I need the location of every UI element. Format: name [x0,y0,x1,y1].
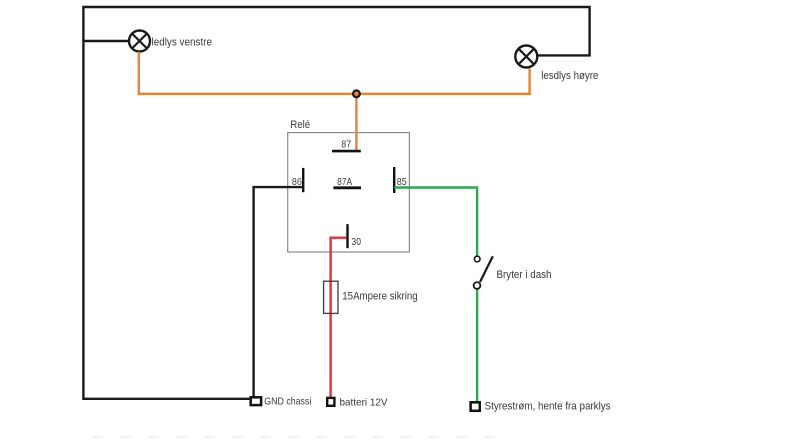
svg-text:15Ampere sikring: 15Ampere sikring [342,290,417,302]
svg-text:87A: 87A [337,176,352,188]
svg-text:30: 30 [351,236,361,248]
svg-text:lesdlys høyre: lesdlys høyre [541,70,598,82]
svg-text:Relé: Relé [290,119,310,131]
pin 85 [393,167,395,193]
terminal batteri 12V [327,398,334,406]
pin 86 [302,168,304,192]
wire green switch to terminal [476,289,478,402]
svg-text:Styrestrøm, hente fra parklys: Styrestrøm, hente fra parklys [485,400,611,412]
terminal Styrestrøm [471,402,480,411]
relay box U1 [288,133,410,252]
terminal GND chassi [251,397,261,405]
fuse 15A [324,281,338,313]
svg-text:GND chassi: GND chassi [264,395,311,407]
wire outer black loop (top border, left border, right drop, GND feed) [83,7,589,399]
faint artifact line bottom [92,436,500,438]
wire orange to pin 87 [355,94,357,151]
wire left lamp feed [83,40,128,42]
wire green pin 85 to switch [394,188,477,257]
svg-text:87: 87 [341,138,351,150]
svg-text:ledlys venstre: ledlys venstre [152,37,213,49]
lamp lesdlys høyre [515,46,537,68]
lamp ledlys venstre [129,31,150,52]
svg-text:Bryter i dash: Bryter i dash [497,269,552,281]
switch Bryter i dash [474,256,493,289]
node junction [353,90,360,97]
pin 87A [333,186,361,189]
svg-text:batteri 12V: batteri 12V [340,396,388,408]
wire red pin 30 to battery [331,238,347,397]
pin 30 [346,224,348,248]
wire orange lamp bus [139,52,530,94]
wire pin 86 to ground [254,187,304,396]
pin 87 [332,150,361,153]
